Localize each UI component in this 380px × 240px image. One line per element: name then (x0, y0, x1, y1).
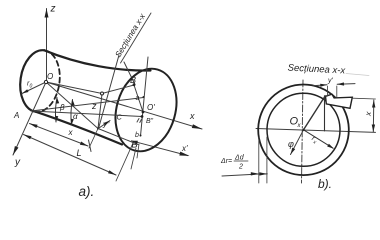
svg-text:y: y (14, 157, 21, 168)
svg-text:a).: a). (79, 184, 95, 199)
node mid (101, 92, 104, 95)
beta angle arc (55, 98, 57, 123)
horizontal centerline (256, 129, 376, 133)
section text underline (121, 13, 152, 63)
svg-text:C: C (117, 113, 123, 122)
x axis arrowhead (192, 124, 202, 129)
delta r dim arrows (222, 174, 259, 176)
svg-text:L: L (77, 148, 82, 158)
delta r dimension extension lines (258, 137, 260, 183)
svg-text:B: B (132, 140, 138, 150)
deformed generator segment node to B (98, 129, 138, 145)
svg-text:φ: φ (288, 139, 294, 149)
steep section line to y'' node (99, 55, 120, 129)
x dimension right side (372, 100, 375, 132)
extensions below B (131, 148, 136, 169)
L dimension (24, 135, 117, 176)
notch displaced element flag (326, 94, 353, 108)
section trace vertical V1 (141, 57, 149, 136)
y'' arrowhead (104, 121, 110, 126)
y'' node dot (97, 128, 99, 130)
tick marks near b (137, 119, 139, 123)
svg-text:Δd: Δd (234, 155, 245, 162)
a dot (143, 96, 145, 98)
node O (44, 80, 47, 83)
svg-text:0: 0 (30, 84, 33, 90)
y' extension lines (327, 86, 329, 96)
alpha arc arrowhead top (72, 100, 75, 106)
y'' arrow (98, 121, 111, 130)
outer circle (258, 85, 349, 176)
x dim arrowhead top (372, 100, 375, 108)
x dim arrowhead start (30, 124, 38, 129)
z section line node to y'' node (98, 94, 102, 129)
O' dot (142, 111, 145, 114)
vertical triangle side (324, 96, 326, 131)
svg-text:α: α (73, 112, 78, 121)
bottom generator (36, 112, 122, 145)
line A to a (31, 98, 144, 112)
svg-text:b).: b). (318, 177, 332, 191)
x dim arrowhead bottom (372, 125, 375, 133)
svg-text:z: z (91, 101, 97, 111)
top generator (44, 50, 150, 70)
section leader to B (124, 62, 135, 85)
vertical centerline dash-dot (302, 80, 304, 183)
y' dimension left arrow (313, 85, 327, 86)
svg-text:O: O (47, 72, 53, 81)
svg-text:Δr=: Δr= (220, 158, 232, 165)
x dim extension from y'' node (89, 129, 98, 149)
z axis arrowhead (45, 9, 49, 18)
r0 arrowhead (22, 89, 29, 93)
left ellipse dashed back arc (36, 50, 64, 114)
alpha angle arc (71, 100, 73, 126)
L dim arrowhead end (108, 170, 116, 175)
x dimension (30, 124, 89, 147)
svg-text:b: b (135, 132, 139, 139)
right ellipse (106, 61, 186, 158)
L extension from B (116, 143, 133, 181)
svg-text:y': y' (327, 78, 334, 85)
B dot (133, 83, 136, 86)
svg-text:x: x (189, 111, 195, 121)
delta r arrowhead outer (251, 172, 259, 175)
svg-text:B”: B” (146, 118, 154, 125)
x dim arrowhead end (80, 142, 88, 147)
x dim tick (89, 140, 92, 152)
faint underline stroke (346, 74, 369, 76)
x' axis (132, 141, 189, 156)
svg-text:a: a (136, 95, 140, 102)
inner circle (267, 93, 340, 166)
svg-text:β: β (59, 103, 65, 112)
y' dim arrowhead left (320, 84, 327, 87)
x axis (46, 82, 202, 129)
line B to O' (134, 85, 143, 112)
b dot (140, 135, 142, 137)
rx radius arrow (304, 130, 334, 148)
x' axis arrowhead (179, 152, 189, 156)
svg-text:B: B (130, 75, 136, 85)
y axis (13, 82, 46, 155)
z axis (46, 9, 48, 83)
beta arc arrowhead bottom (55, 116, 58, 122)
radius arrow down-left (291, 130, 304, 155)
rx label (309, 135, 319, 146)
svg-text:x': x' (181, 144, 188, 153)
line O to y'' node (46, 82, 98, 129)
alpha arc arrowhead bottom (71, 119, 74, 125)
center dot (302, 129, 304, 131)
B'' dot (141, 115, 144, 118)
line O to B (46, 82, 134, 94)
L dim arrowhead start (24, 135, 32, 140)
y' dimension right arrow (337, 83, 355, 86)
line A to B'' (31, 111, 142, 117)
svg-text:z: z (50, 4, 56, 15)
delta r arrowhead inner (259, 172, 267, 175)
rx arrowhead (327, 144, 334, 149)
svg-text:A: A (13, 111, 19, 120)
beta arc arrowhead top (56, 98, 59, 104)
y axis arrowhead (13, 146, 19, 155)
x dim top tie (353, 97, 376, 100)
svg-text:O': O' (147, 103, 155, 112)
y' dim arrowhead right (337, 82, 344, 85)
svg-text:2: 2 (238, 164, 243, 171)
B bottom junction (131, 141, 138, 144)
r0 radius line (22, 82, 46, 94)
left ellipse solid arc (16, 48, 44, 112)
radius O to B' notch corner (304, 96, 326, 130)
